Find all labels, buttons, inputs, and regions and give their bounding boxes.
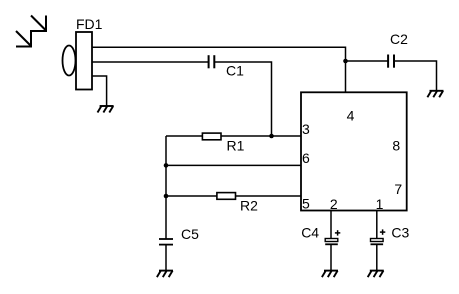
svg-text:1: 1	[376, 196, 384, 212]
svg-text:2: 2	[330, 196, 338, 212]
svg-text:C1: C1	[226, 63, 244, 79]
svg-text:C5: C5	[181, 226, 199, 242]
svg-text:C3: C3	[391, 225, 409, 241]
svg-text:C4: C4	[301, 225, 319, 241]
svg-text:5: 5	[302, 196, 310, 212]
svg-text:R2: R2	[240, 198, 258, 214]
svg-text:7: 7	[394, 181, 402, 197]
svg-text:8: 8	[392, 137, 400, 153]
svg-text:R1: R1	[227, 138, 245, 154]
svg-text:3: 3	[302, 121, 310, 137]
svg-text:C2: C2	[390, 31, 408, 47]
svg-text:6: 6	[302, 150, 310, 166]
svg-text:FD1: FD1	[76, 16, 103, 32]
svg-text:4: 4	[347, 107, 355, 123]
